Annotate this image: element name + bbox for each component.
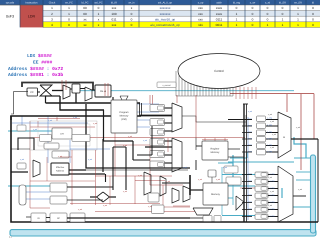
svg-text:xxx: xxx <box>198 6 203 10</box>
svg-text:0: 0 <box>312 23 314 27</box>
svg-text:s_sel: s_sel <box>268 113 273 116</box>
svg-text:xx: xx <box>83 23 87 27</box>
svg-text:s_sel: s_sel <box>296 126 301 129</box>
svg-text:a_reg: a_reg <box>270 215 275 218</box>
svg-text:a_reg: a_reg <box>267 117 272 120</box>
svg-text:0: 0 <box>252 17 254 21</box>
svg-text:s_sel: s_sel <box>78 208 83 211</box>
svg-text:s_sel: s_sel <box>183 166 188 169</box>
svg-text:0: 0 <box>252 6 254 10</box>
svg-text:Control: Control <box>214 69 224 73</box>
svg-text:s_sel: s_sel <box>138 174 143 177</box>
svg-text:1: 1 <box>236 17 238 21</box>
svg-text:a_reg: a_reg <box>267 124 272 127</box>
svg-text:s_sel: s_sel <box>123 144 128 147</box>
svg-text:0: 0 <box>312 6 314 10</box>
svg-text:Address $#### : 0x72: Address $#### : 0x72 <box>8 66 63 72</box>
svg-text:0: 0 <box>252 12 254 16</box>
svg-text:a_reg: a_reg <box>270 180 275 183</box>
svg-text:a_reg: a_reg <box>270 187 275 190</box>
svg-text:1: 1 <box>68 12 70 16</box>
svg-text:0: 0 <box>252 23 254 27</box>
svg-text:s_sel: s_sel <box>248 110 253 113</box>
svg-text:a_reg: a_reg <box>267 137 272 140</box>
svg-text:M: M <box>283 136 285 139</box>
svg-text:00: 00 <box>83 6 87 10</box>
svg-text:0111: 0111 <box>216 17 223 21</box>
svg-text:s_sel: s_sel <box>58 155 63 158</box>
svg-text:s_sel: s_sel <box>268 204 273 207</box>
svg-text:0011: 0011 <box>216 23 223 27</box>
svg-text:ld_PC: ld_PC <box>81 2 88 5</box>
svg-text:xx: xx <box>83 17 87 21</box>
svg-text:0: 0 <box>68 17 70 21</box>
svg-text:xxx: xxx <box>112 6 117 10</box>
svg-text:Effective: Effective <box>56 166 65 169</box>
svg-text:LDR: LDR <box>28 15 36 19</box>
svg-text:1: 1 <box>236 23 238 27</box>
svg-text:0xF3: 0xF3 <box>6 15 14 19</box>
svg-text:011: 011 <box>112 17 117 21</box>
svg-text:Memory: Memory <box>211 151 220 154</box>
svg-text:EE ####: EE #### <box>33 59 53 65</box>
svg-text:s_sel: s_sel <box>143 139 148 142</box>
svg-text:0: 0 <box>131 12 133 16</box>
svg-text:xxx: xxx <box>198 12 203 16</box>
svg-text:LDX $####: LDX $#### <box>27 53 52 59</box>
svg-text:1: 1 <box>236 12 238 16</box>
svg-text:PM ad: PM ad <box>100 90 107 93</box>
svg-text:xxxxxxx: xxxxxxx <box>160 12 171 16</box>
svg-text:xxxxxxx: xxxxxxx <box>160 6 171 10</box>
svg-text:ld_reg: ld_reg <box>233 2 241 5</box>
svg-text:17: 17 <box>9 235 13 239</box>
svg-text:sel_PC: sel_PC <box>94 2 102 5</box>
svg-text:s_sel: s_sel <box>216 178 221 181</box>
svg-text:(PM): (PM) <box>121 118 126 121</box>
svg-text:PC: PC <box>30 91 34 94</box>
svg-text:4: 4 <box>51 23 53 27</box>
svg-text:Address $##81 : 0x3b: Address $##81 : 0x3b <box>8 72 63 78</box>
svg-text:s_sel: s_sel <box>103 204 108 207</box>
svg-text:s_wr: s_wr <box>250 2 256 5</box>
svg-text:1: 1 <box>51 6 53 10</box>
svg-text:a_reg: a_reg <box>270 173 275 176</box>
svg-text:xxxx: xxxx <box>216 6 223 10</box>
svg-text:3: 3 <box>51 17 53 21</box>
svg-text:addr: addr <box>216 2 221 5</box>
svg-text:1: 1 <box>297 12 299 16</box>
svg-text:xxx: xxx <box>198 17 203 21</box>
svg-text:alu_concatmov16_op: alu_concatmov16_op <box>150 23 180 27</box>
svg-text:s_op: s_op <box>198 2 204 5</box>
svg-text:Memory: Memory <box>211 193 220 196</box>
svg-text:1: 1 <box>267 23 269 27</box>
svg-text:s_sel: s_sel <box>268 176 273 179</box>
svg-text:0: 0 <box>312 12 314 16</box>
svg-text:s_sel: s_sel <box>270 190 275 193</box>
svg-text:2: 2 <box>51 12 53 16</box>
svg-text:1: 1 <box>98 12 100 16</box>
svg-text:s_control: s_control <box>162 84 171 87</box>
svg-text:100: 100 <box>111 12 116 16</box>
svg-text:a_reg: a_reg <box>270 208 275 211</box>
svg-text:Clock: Clock <box>49 2 56 5</box>
svg-text:1: 1 <box>297 6 299 10</box>
svg-text:s_sel: s_sel <box>166 180 171 183</box>
svg-text:0: 0 <box>131 23 133 27</box>
svg-text:s_sel: s_sel <box>270 120 275 123</box>
svg-text:0: 0 <box>131 17 133 21</box>
svg-text:1: 1 <box>282 17 284 21</box>
svg-text:s_sel: s_sel <box>270 146 275 149</box>
svg-text:0: 0 <box>312 17 314 21</box>
svg-text:ld_IR: ld_IR <box>111 2 117 5</box>
svg-text:0: 0 <box>267 6 269 10</box>
svg-text:111: 111 <box>198 23 203 27</box>
svg-text:s_sel: s_sel <box>33 128 38 131</box>
svg-text:s_sel: s_sel <box>93 122 98 125</box>
svg-text:opcode: opcode <box>6 2 15 5</box>
svg-text:s_sel: s_sel <box>123 190 128 193</box>
svg-text:s_sel: s_sel <box>223 166 228 169</box>
svg-text:s_sel: s_sel <box>88 158 93 161</box>
svg-text:s_sel: s_sel <box>20 158 25 161</box>
svg-text:wr_in: wr_in <box>128 2 135 5</box>
svg-text:ld_SR: ld_SR <box>279 2 286 5</box>
svg-text:s_sel: s_sel <box>272 133 277 136</box>
svg-text:LIR: LIR <box>60 133 64 136</box>
svg-text:s_sel: s_sel <box>148 205 153 208</box>
svg-text:0: 0 <box>267 12 269 16</box>
svg-text:0: 0 <box>68 23 70 27</box>
svg-text:1: 1 <box>297 17 299 21</box>
svg-text:s_sel: s_sel <box>298 188 303 191</box>
svg-text:0: 0 <box>236 6 238 10</box>
svg-text:alu_mov16_op: alu_mov16_op <box>155 17 176 21</box>
svg-text:s_sel: s_sel <box>73 116 78 119</box>
svg-text:s_sel: s_sel <box>48 119 53 122</box>
svg-text:1: 1 <box>297 23 299 27</box>
svg-text:sel_ALU_op: sel_ALU_op <box>158 2 173 5</box>
svg-text:1: 1 <box>68 6 70 10</box>
svg-text:wr_PC: wr_PC <box>65 2 73 5</box>
svg-text:Instruction: Instruction <box>26 2 39 5</box>
svg-text:s_sel: s_sel <box>198 178 203 181</box>
svg-text:0: 0 <box>98 6 100 10</box>
svg-text:wr_SR: wr_SR <box>294 2 302 5</box>
svg-text:xxxx: xxxx <box>216 12 223 16</box>
svg-text:1: 1 <box>282 23 284 27</box>
svg-text:0: 0 <box>267 17 269 21</box>
svg-text:0: 0 <box>282 12 284 16</box>
svg-text:0: 0 <box>282 6 284 10</box>
svg-text:a_reg: a_reg <box>270 201 275 204</box>
svg-text:xxx: xxx <box>112 23 117 27</box>
svg-text:a_reg: a_reg <box>267 150 272 153</box>
svg-text:a_reg: a_reg <box>270 194 275 197</box>
svg-text:s_rd: s_rd <box>265 2 271 5</box>
svg-text:Address: Address <box>56 170 65 173</box>
svg-text:00: 00 <box>83 12 87 16</box>
svg-text:s_sel: s_sel <box>128 135 133 138</box>
